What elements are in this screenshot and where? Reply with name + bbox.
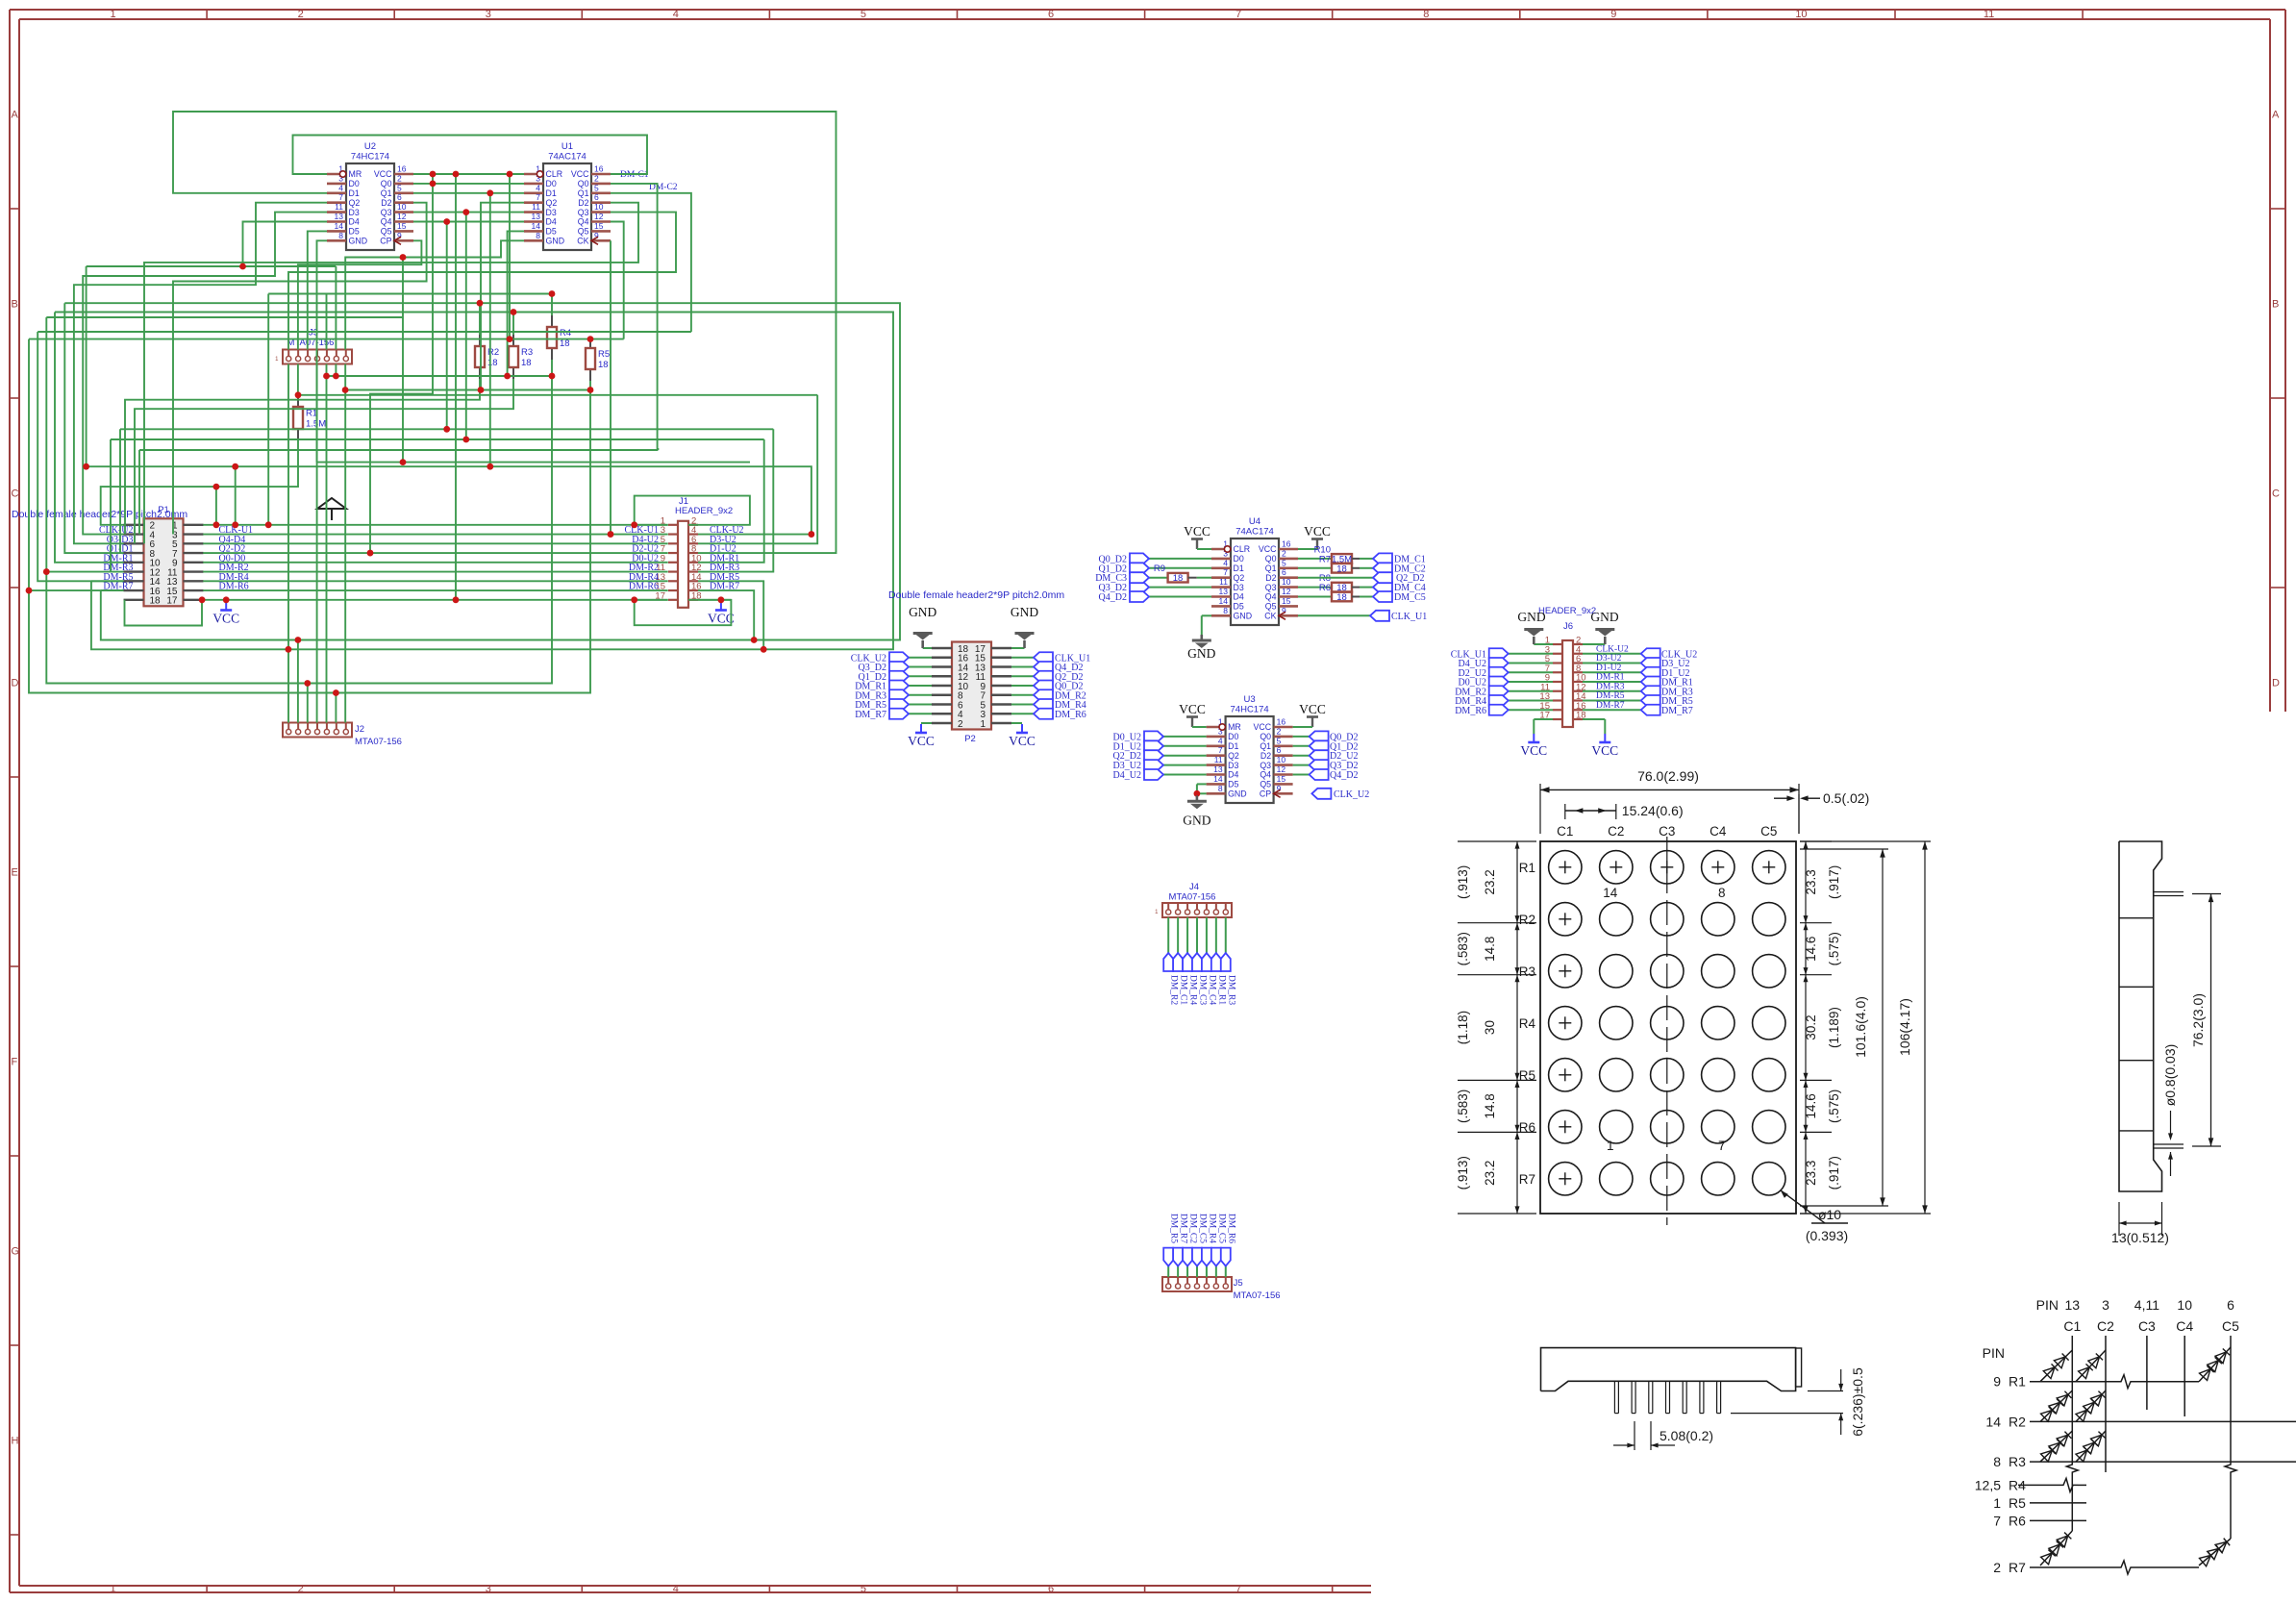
svg-text:6: 6 [1282,567,1286,577]
svg-text:HEADER_9x2: HEADER_9x2 [1538,606,1596,616]
svg-text:23.2: 23.2 [1483,1161,1497,1186]
power VCC at P1 [212,602,239,626]
svg-text:14: 14 [335,221,344,231]
svg-text:Q0: Q0 [381,179,392,188]
svg-text:18: 18 [560,338,570,349]
svg-text:16: 16 [397,164,407,174]
power VCC P2 left [908,723,935,748]
svg-text:CK: CK [1264,612,1276,621]
labels R1-R7 [1519,861,1536,1187]
junction [83,463,89,470]
svg-text:(.583): (.583) [1456,1090,1470,1123]
wire [55,313,893,650]
svg-text:Q0: Q0 [1265,554,1277,564]
svg-text:GND: GND [546,237,565,246]
svg-text:PIN: PIN [2036,1297,2059,1313]
svg-text:MTA07-156: MTA07-156 [1234,1290,1281,1301]
svg-text:MR: MR [1228,722,1241,732]
svg-text:C3: C3 [2138,1318,2156,1334]
wire [610,240,611,534]
antenna symbol [317,498,346,520]
wire [344,364,346,723]
wire [29,338,624,340]
IC U1 74AC174 [524,141,611,250]
svg-text:18: 18 [598,360,609,370]
svg-text:3: 3 [2102,1297,2109,1313]
resistor R2 18 [475,335,499,379]
svg-text:13: 13 [1213,764,1223,774]
wire [297,364,299,396]
wire [413,183,524,185]
svg-text:(.913): (.913) [1456,865,1470,899]
svg-text:D0: D0 [1228,732,1238,741]
diodes R1-C1 [2040,1350,2072,1382]
svg-text:R2: R2 [487,347,499,358]
label net DM-C1 [620,170,649,180]
svg-text:D3: D3 [1228,761,1238,770]
wire [139,449,658,451]
svg-text:A: A [12,110,19,121]
svg-text:D1-U2: D1-U2 [1596,664,1622,673]
svg-text:6: 6 [1048,9,1054,20]
wire [288,213,676,350]
junction [400,254,407,261]
svg-text:23.2: 23.2 [1483,869,1497,894]
svg-text:R2: R2 [1519,913,1535,927]
svg-text:14: 14 [1603,886,1618,900]
svg-text:8: 8 [1993,1454,2001,1469]
svg-text:1: 1 [1993,1495,2001,1511]
junction [718,596,725,603]
net flags J4 [1163,917,1235,1005]
svg-text:5: 5 [1282,558,1286,567]
svg-text:Q5: Q5 [1260,780,1271,789]
svg-text:J6: J6 [1563,621,1573,632]
wire [698,534,811,536]
svg-text:D4: D4 [349,217,360,227]
svg-text:CLR: CLR [1234,544,1251,554]
net flag DM_C4 [1373,582,1426,593]
svg-text:C4: C4 [2176,1318,2193,1334]
svg-text:C2: C2 [1608,824,1624,839]
net flags U4 left [1095,553,1211,603]
svg-text:16: 16 [1282,539,1291,549]
svg-text:C5: C5 [1760,824,1777,839]
svg-text:PIN: PIN [1983,1345,2005,1361]
wire [268,293,552,295]
svg-text:1: 1 [110,1584,115,1595]
wire [308,231,327,349]
diodes R2-C1 [2040,1390,2072,1421]
svg-text:16: 16 [594,164,604,174]
svg-text:D2: D2 [1260,751,1271,761]
svg-text:HEADER_9x2: HEADER_9x2 [675,506,733,516]
junction [430,171,437,178]
connector P2 double female header [932,642,1011,745]
svg-text:15: 15 [594,221,604,231]
wire [698,590,754,639]
svg-text:2: 2 [1993,1560,2001,1575]
svg-text:Q4: Q4 [1260,770,1271,780]
wire [317,462,751,463]
wire [125,600,203,626]
svg-text:C: C [2272,488,2280,500]
wire [37,331,691,333]
svg-text:C3: C3 [1659,824,1675,839]
svg-text:2: 2 [594,173,599,183]
svg-text:10: 10 [397,202,407,212]
svg-text:VCC: VCC [374,169,392,179]
IC U3 74HC174 [1207,694,1293,803]
power VCC P2 right [1009,723,1036,748]
svg-text:2: 2 [298,1584,304,1595]
wire [64,303,123,553]
wire [46,317,123,572]
junction [295,391,302,398]
svg-text:(.575): (.575) [1827,932,1841,965]
power VCC U3 right [1293,702,1326,727]
svg-text:Q4: Q4 [578,217,589,227]
wire [203,571,668,573]
svg-text:GND: GND [1187,646,1215,661]
wire [87,265,337,267]
svg-text:18: 18 [150,596,162,607]
svg-text:7: 7 [1223,567,1228,577]
svg-text:2: 2 [1282,548,1286,558]
wire [203,580,668,582]
svg-text:15: 15 [1277,774,1286,784]
svg-text:Q3: Q3 [381,208,392,217]
svg-text:DM_R3: DM_R3 [1226,975,1235,1005]
wire [326,294,328,350]
power VCC J6 right [1583,719,1618,758]
wire [287,364,289,723]
svg-text:R3: R3 [1519,964,1535,979]
svg-text:6: 6 [594,192,599,202]
wire [46,316,403,318]
svg-text:7: 7 [536,192,540,202]
svg-text:DM_C4: DM_C4 [1207,975,1216,1005]
wire [481,203,524,390]
svg-text:4: 4 [338,183,343,192]
svg-text:GND: GND [1228,789,1247,799]
svg-text:D3: D3 [1234,583,1244,592]
svg-text:D2: D2 [578,198,588,208]
ground GND J6 right [1583,610,1619,644]
junction [295,637,302,643]
svg-text:B: B [12,299,18,311]
junction [477,300,484,307]
net flags J5 [1163,1214,1235,1277]
svg-text:76.0(2.99): 76.0(2.99) [1637,768,1699,784]
wire [298,240,422,349]
resistor R7 18 [1298,554,1373,574]
svg-text:R7: R7 [1319,554,1331,564]
wire [698,429,773,571]
svg-text:30: 30 [1483,1020,1497,1035]
svg-text:Q2: Q2 [546,198,558,208]
svg-text:Q0: Q0 [1260,732,1271,741]
svg-text:VCC: VCC [1259,544,1277,554]
svg-text:6: 6 [1048,1584,1054,1595]
wire [64,303,900,639]
LED matrix body outline [1540,841,1796,1214]
junction [462,209,469,215]
junction [631,521,637,528]
svg-text:DM-R7: DM-R7 [1596,701,1625,711]
svg-text:13(0.512): 13(0.512) [2111,1230,2169,1245]
svg-text:11: 11 [532,202,540,212]
svg-text:D4: D4 [1234,592,1244,602]
svg-text:15.24(0.6): 15.24(0.6) [1622,803,1684,818]
svg-text:D0: D0 [546,179,557,188]
junction [453,171,460,178]
wire [413,192,524,194]
svg-text:10: 10 [1282,577,1291,587]
svg-text:1: 1 [110,9,115,20]
connector J1 HEADER_9x2 [624,496,743,608]
wire [402,258,404,463]
svg-text:Q0: Q0 [578,179,589,188]
junction [809,531,815,538]
svg-text:14: 14 [1219,596,1229,606]
svg-text:(.575): (.575) [1827,1090,1841,1123]
svg-text:DM_R2: DM_R2 [1169,975,1179,1005]
svg-text:Q3: Q3 [578,208,589,217]
net flags P2 right [1011,652,1090,720]
svg-text:D4: D4 [546,217,557,227]
pin diagram row lines [2018,1375,2296,1574]
diodes R2-C2 [2076,1390,2106,1421]
svg-text:4: 4 [1223,558,1228,567]
svg-text:A: A [2272,110,2280,121]
svg-text:6(.236)±0.5: 6(.236)±0.5 [1850,1367,1865,1437]
wire [465,213,467,439]
junction [462,437,469,443]
svg-text:7: 7 [1993,1513,2001,1528]
svg-text:10: 10 [1277,755,1286,764]
wire [611,222,624,339]
junction [487,463,493,470]
connector J2 MTA07-156 [283,723,402,748]
svg-text:15: 15 [1282,596,1291,606]
svg-text:5: 5 [861,1584,866,1595]
svg-text:74HC174: 74HC174 [1231,705,1269,715]
svg-text:4: 4 [536,183,540,192]
svg-text:E: E [12,867,18,879]
svg-text:1: 1 [1607,1139,1614,1153]
wire [508,231,524,376]
svg-text:5: 5 [861,9,866,20]
svg-text:CLK_U1: CLK_U1 [1391,612,1427,622]
svg-text:74AC174: 74AC174 [1235,527,1274,538]
wire [335,693,337,723]
svg-text:R7: R7 [2009,1560,2026,1575]
svg-text:U4: U4 [1249,516,1260,527]
svg-text:74HC174: 74HC174 [351,152,389,163]
power VCC U4 right [1298,524,1331,549]
IC U4 74AC174 [1211,516,1298,625]
svg-text:Q2: Q2 [349,198,361,208]
svg-text:GND: GND [1234,612,1253,621]
junction [239,263,246,270]
svg-text:13: 13 [335,212,344,221]
svg-text:16: 16 [1277,717,1286,727]
resistor R1 1.5M [293,395,326,440]
net flag Q2_D2 U4 [1298,572,1424,584]
svg-text:CLK_U2: CLK_U2 [1334,789,1369,800]
wire [698,439,764,563]
resistor R5 18 [586,337,610,381]
net flag DM_C1 [1373,553,1426,564]
svg-text:7: 7 [1218,745,1223,755]
svg-text:5: 5 [397,183,402,192]
junction [26,588,33,594]
svg-text:76.2(3.0): 76.2(3.0) [2190,993,2206,1047]
svg-text:CP: CP [1260,789,1271,799]
svg-text:8: 8 [338,231,343,240]
wire [101,589,124,591]
wire [29,381,590,693]
svg-text:D1: D1 [1234,564,1244,573]
junction [232,463,238,470]
svg-text:Q3: Q3 [1260,761,1271,770]
ground GND U4 [1187,615,1215,661]
connector J4 MTA07-156 [1155,882,1232,917]
svg-text:7: 7 [1235,9,1241,20]
svg-text:Q4_D2: Q4_D2 [1330,770,1358,781]
svg-text:14.8: 14.8 [1483,937,1497,962]
svg-text:CLR: CLR [546,169,563,179]
svg-text:DM-R3: DM-R3 [1596,682,1625,691]
junction [453,596,460,603]
junction [400,459,407,465]
net flags U3 right [1293,731,1359,781]
svg-text:Q1: Q1 [1260,741,1271,751]
svg-text:10: 10 [1795,9,1807,20]
dimension 13(0.512) [2111,1202,2169,1245]
svg-text:8: 8 [1423,9,1429,20]
svg-text:VCC: VCC [1520,743,1547,758]
svg-text:6: 6 [2227,1297,2234,1313]
junction [43,568,50,575]
net flag DM_C2 [1373,563,1426,574]
pin diagram labels [1975,1297,2239,1575]
resistor R4 18 [547,315,571,360]
svg-text:D: D [12,678,19,689]
svg-text:DM_R4: DM_R4 [1207,1214,1216,1243]
resistor R10 1.5M [1298,544,1373,564]
svg-text:D0: D0 [349,179,360,188]
svg-text:8: 8 [1223,606,1228,615]
svg-text:5: 5 [594,183,599,192]
dimension 0.5(.02) [1774,790,1869,834]
svg-text:10: 10 [594,202,604,212]
wire [335,364,337,377]
svg-text:VCC: VCC [1179,702,1206,716]
svg-text:6: 6 [397,192,402,202]
wire [446,222,448,430]
junction [232,521,238,528]
wire [413,212,524,213]
junction [286,646,292,653]
svg-text:D5: D5 [1228,780,1238,789]
svg-text:DM_C5: DM_C5 [1394,592,1426,603]
wire [138,450,140,535]
ground GND P2 right [1011,605,1038,648]
wire [297,640,299,723]
svg-text:VCC: VCC [1304,524,1331,539]
svg-text:DM_R6: DM_R6 [1455,706,1486,716]
svg-text:C1: C1 [2063,1318,2081,1334]
svg-text:8: 8 [1218,784,1223,793]
wire [110,439,112,572]
centerline C3 [1666,837,1668,1225]
svg-text:7: 7 [1235,1584,1241,1595]
svg-text:18: 18 [521,358,532,368]
ground GND U3 [1183,784,1210,827]
svg-text:11: 11 [1984,9,1994,20]
svg-text:7: 7 [1718,1139,1726,1153]
svg-text:(0.393): (0.393) [1806,1228,1848,1243]
svg-text:12,5: 12,5 [1975,1477,2001,1492]
svg-text:R9: R9 [1154,564,1165,574]
label net DM-C2 [649,183,678,192]
svg-text:VCC: VCC [1184,524,1210,539]
svg-text:14: 14 [532,221,541,231]
connector J6 HEADER_9x2 [1538,606,1596,727]
wire [327,375,553,377]
power VCC at J1 [708,602,735,626]
svg-text:C1: C1 [1557,824,1573,839]
pin diagram column lines [2066,1336,2236,1539]
junction [342,387,349,393]
junction [333,373,339,380]
svg-text:D4: D4 [1228,770,1238,780]
svg-text:(.917): (.917) [1827,865,1841,899]
svg-text:5: 5 [1277,736,1282,745]
svg-text:GND: GND [1183,813,1210,827]
wire [203,534,668,536]
svg-text:DM_C5: DM_C5 [1197,1214,1207,1243]
junction [608,531,614,538]
svg-text:VCC: VCC [212,612,239,626]
svg-text:11: 11 [1219,577,1228,587]
wire [120,428,773,430]
svg-text:3: 3 [486,9,491,20]
svg-text:U2: U2 [364,141,376,152]
svg-text:CK: CK [577,237,588,246]
svg-text:13: 13 [1219,587,1229,596]
right dimension chain [1800,841,1931,1214]
svg-text:12: 12 [397,212,407,221]
net flags J6 left [1451,648,1553,716]
svg-text:8: 8 [1718,886,1726,900]
left dimension chain [1456,841,1536,1214]
svg-text:DM-C1: DM-C1 [620,170,649,180]
wire [512,313,514,336]
wire [144,203,638,544]
wire [203,552,668,554]
svg-text:B: B [2272,299,2279,311]
svg-text:DM_C2: DM_C2 [1188,1214,1198,1243]
svg-text:Q1: Q1 [1265,564,1277,573]
svg-text:D5: D5 [546,227,557,237]
svg-text:VCC: VCC [571,169,589,179]
svg-text:DM_C1: DM_C1 [1179,975,1188,1005]
diodes R1-C5 [2199,1347,2231,1382]
svg-text:17: 17 [166,596,178,607]
